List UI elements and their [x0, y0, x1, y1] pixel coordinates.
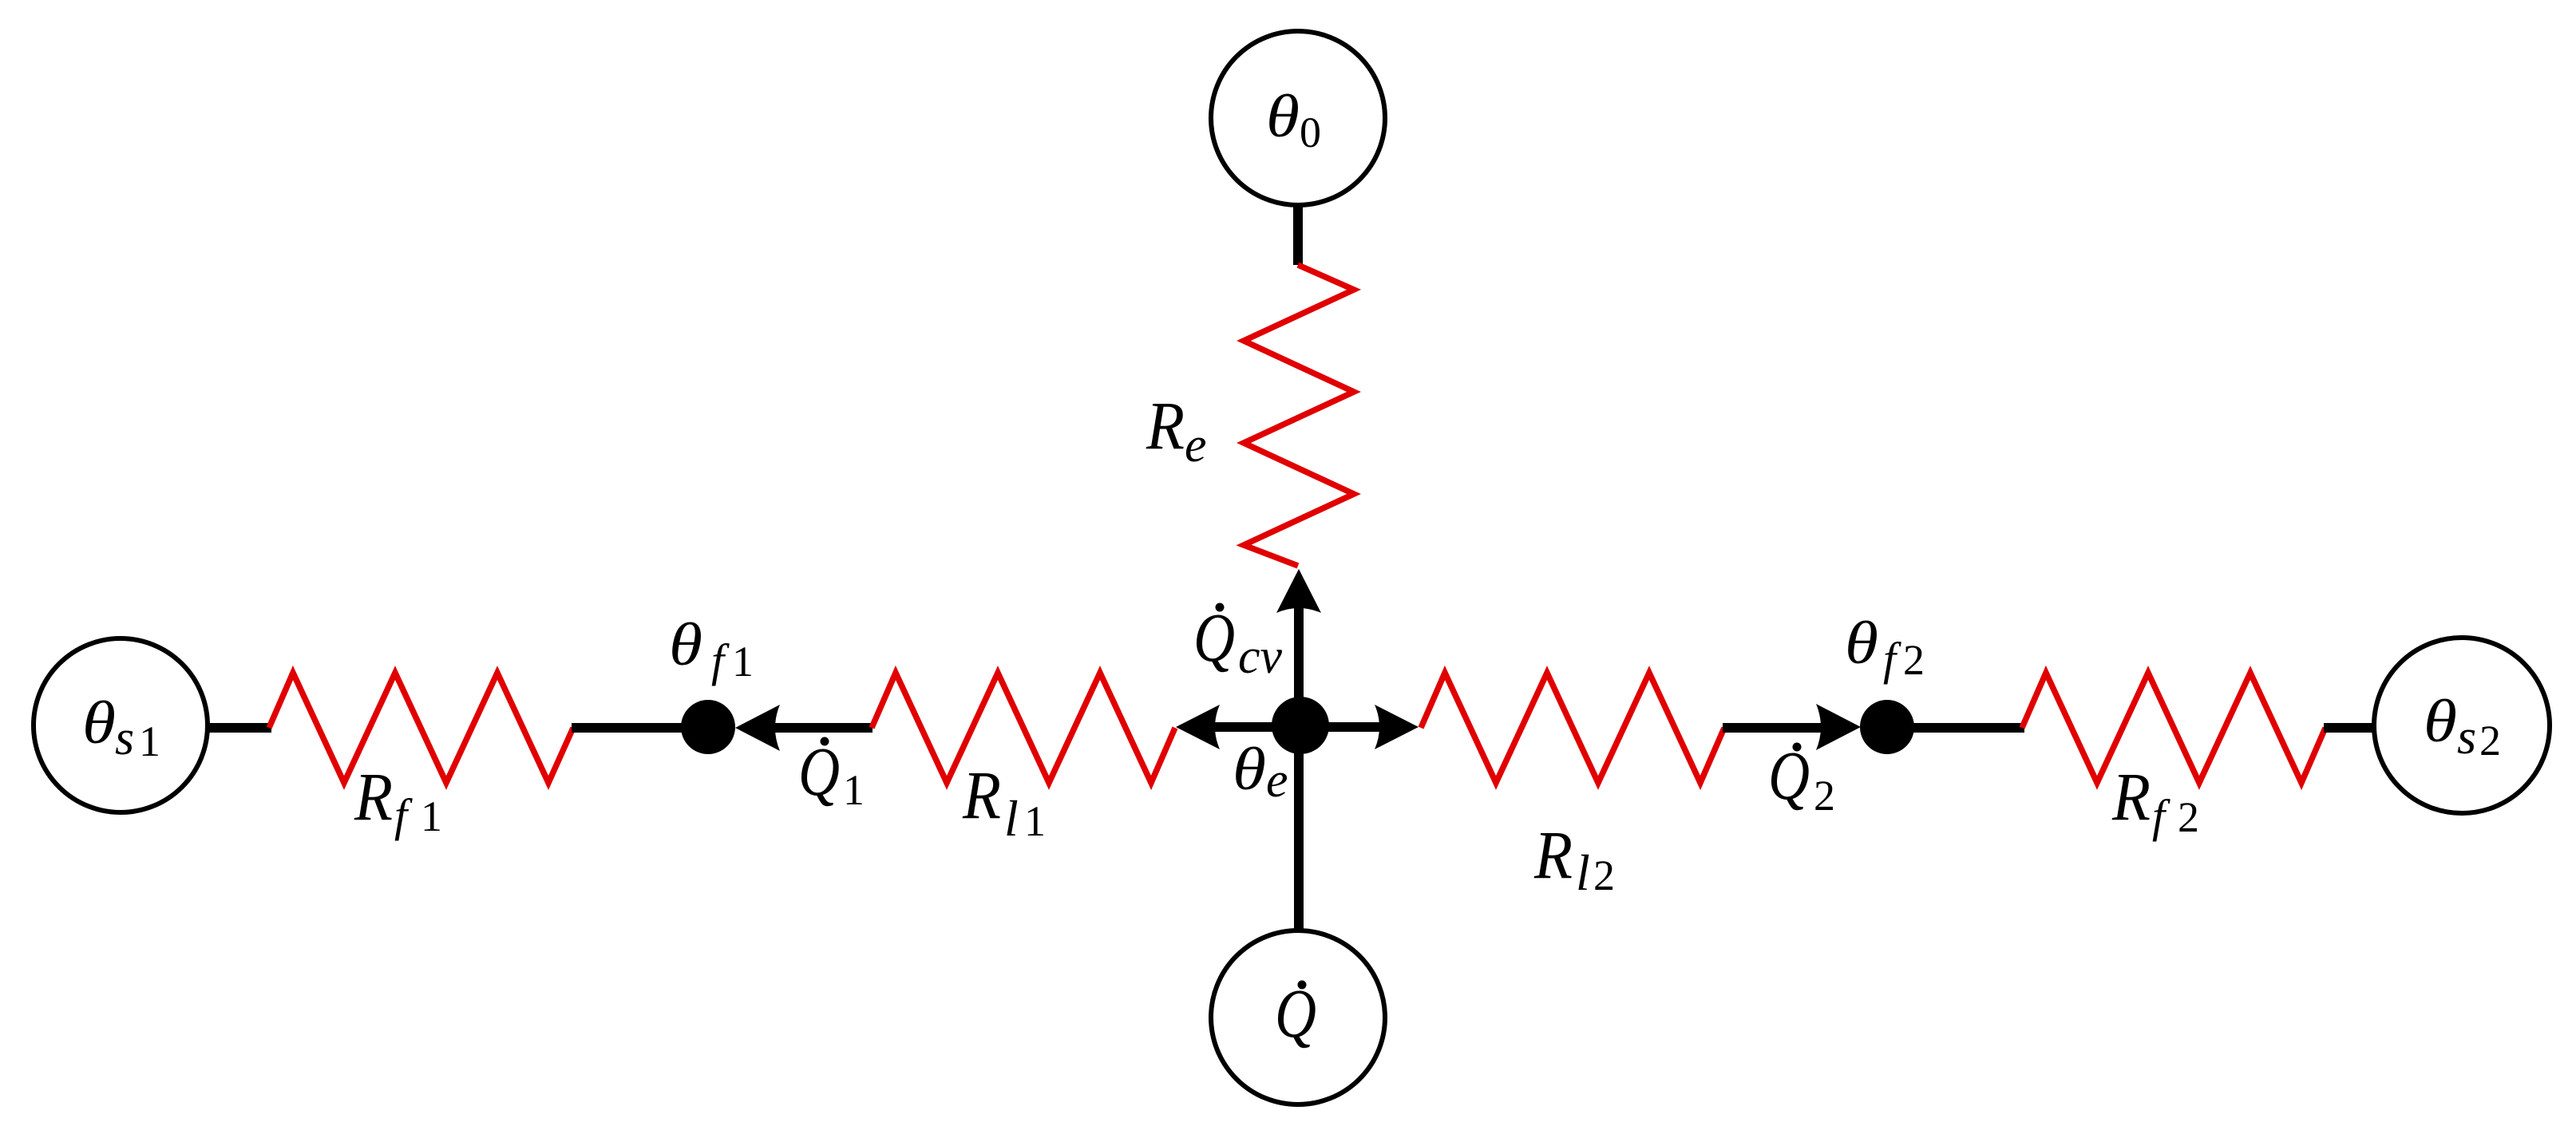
svg-text:θf1: θf1: [669, 611, 754, 686]
svg-text:Q: Q: [1275, 974, 1316, 1052]
svg-text:θs2: θs2: [2424, 688, 2501, 765]
wire theta_0 to Re: [1293, 204, 1303, 265]
node theta_0 source circle: [1211, 31, 1385, 205]
svg-text:Rl2: Rl2: [1533, 816, 1615, 901]
wire node theta_e to source Q: [1294, 725, 1304, 929]
label Q1: [798, 733, 865, 814]
svg-text:θe: θe: [1233, 736, 1288, 808]
node theta_f2 dot: [1860, 700, 1914, 754]
svg-text:Rl1: Rl1: [962, 757, 1046, 847]
resistor Rl1: [872, 673, 1175, 783]
svg-text:Qcv: Qcv: [1193, 599, 1283, 684]
label Qdot: [1275, 974, 1316, 1052]
svg-text:θf2: θf2: [1845, 610, 1925, 685]
wire theta_s1 to Rf1: [206, 723, 271, 733]
svg-text:Rf2: Rf2: [2111, 758, 2199, 842]
svg-text:Q1: Q1: [798, 733, 865, 814]
svg-text:Q2: Q2: [1768, 737, 1835, 820]
resistor Rf2: [2022, 673, 2325, 783]
resistor Rl2: [1421, 673, 1724, 783]
node theta_s1 source circle: [34, 638, 208, 812]
arrow from theta_e pointing left to Rl1: [1176, 705, 1300, 749]
arrow Q1 pointing left into theta_f1: [735, 705, 873, 751]
source circle Qdot: [1211, 930, 1385, 1104]
node theta_f1 dot: [681, 700, 735, 754]
wire Rl2 to arrow Q2: [1723, 723, 1828, 733]
resistor Rf1: [269, 673, 573, 783]
node theta_e junction dot: [1272, 697, 1329, 754]
svg-text:θ0: θ0: [1266, 83, 1321, 156]
resistor Re: [1244, 265, 1354, 566]
arrow Q2 pointing right into theta_f2: [1816, 704, 1861, 750]
svg-text:Re: Re: [1146, 387, 1206, 472]
node theta_s2 source circle: [2374, 638, 2550, 813]
arrow Qcv upward from node theta_e: [1276, 569, 1321, 725]
wire Rf1 to theta_f1: [572, 723, 708, 733]
wire theta_f2 to Rf2: [1913, 723, 2024, 733]
arrow from theta_e pointing right to Rl2: [1300, 705, 1419, 749]
svg-text:Rf1: Rf1: [354, 758, 442, 841]
label Q2: [1768, 737, 1835, 820]
wire Rf2 to theta_s2: [2324, 723, 2374, 733]
label Qcv: [1193, 599, 1283, 684]
svg-text:θs1: θs1: [82, 689, 160, 765]
